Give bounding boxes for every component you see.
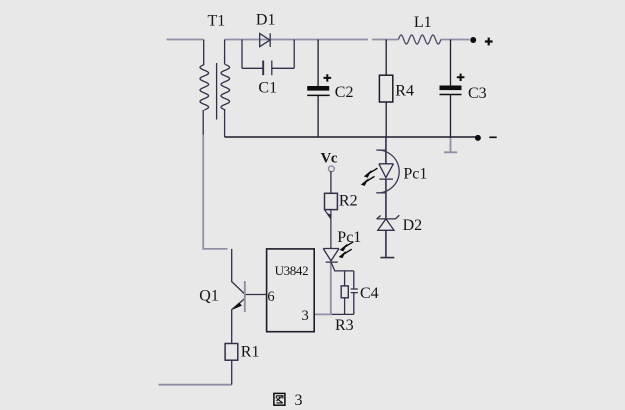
svg-text:C3: C3 bbox=[468, 85, 487, 102]
svg-text:C4: C4 bbox=[360, 285, 379, 302]
svg-text:R4: R4 bbox=[395, 82, 414, 99]
svg-text:U3842: U3842 bbox=[275, 263, 309, 278]
svg-text:D1: D1 bbox=[256, 11, 276, 28]
svg-text:C1: C1 bbox=[258, 80, 277, 97]
svg-text:C2: C2 bbox=[335, 84, 354, 101]
svg-text:Pc1: Pc1 bbox=[403, 165, 427, 182]
svg-text:R2: R2 bbox=[339, 192, 358, 209]
svg-text:3: 3 bbox=[302, 308, 309, 324]
svg-text:D2: D2 bbox=[403, 217, 423, 234]
svg-text:L1: L1 bbox=[414, 14, 432, 31]
svg-text:6: 6 bbox=[267, 289, 274, 305]
svg-text:T1: T1 bbox=[208, 13, 226, 30]
svg-text:R3: R3 bbox=[335, 317, 354, 334]
svg-text:R1: R1 bbox=[241, 343, 260, 360]
svg-text:Q1: Q1 bbox=[199, 288, 219, 305]
svg-text:3: 3 bbox=[295, 392, 303, 409]
svg-text:Pc1: Pc1 bbox=[337, 229, 361, 246]
svg-text:Vc: Vc bbox=[321, 151, 338, 167]
